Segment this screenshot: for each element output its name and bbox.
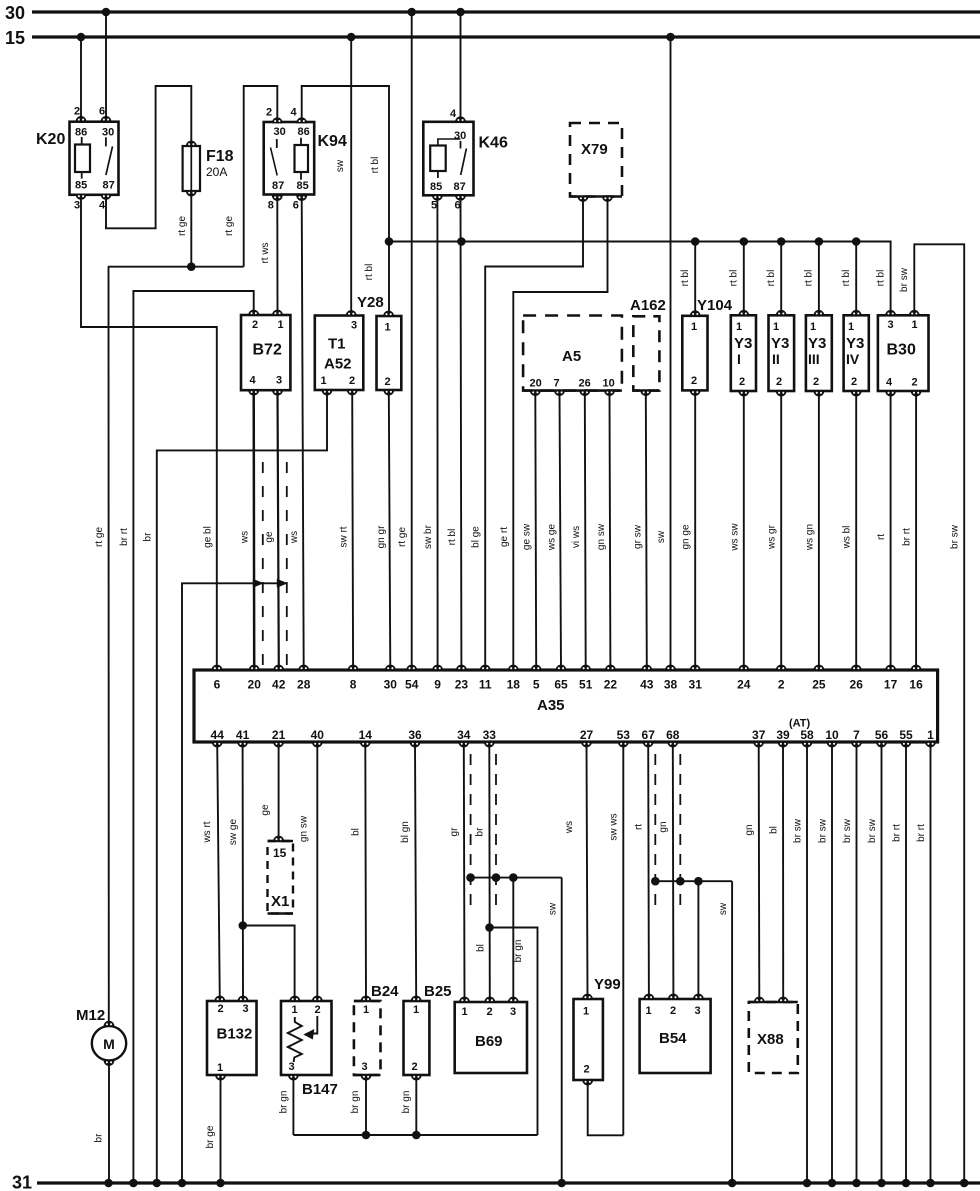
svg-text:M: M [103,1036,115,1052]
svg-text:1: 1 [278,319,284,331]
svg-text:II: II [772,351,780,367]
svg-text:K46: K46 [479,135,508,152]
node pin33 branch [485,923,494,932]
svg-text:br sw: br sw [818,818,829,843]
svg-text:3: 3 [888,319,894,331]
wire A35 pin55 to bus31 br rt [905,742,907,1183]
svg-text:1: 1 [691,321,697,333]
wire rtbl drop Y104 [694,242,696,316]
svg-text:3: 3 [510,1006,516,1018]
svg-text:gn gr: gn gr [376,525,387,548]
svg-text:ws: ws [289,531,300,544]
svg-text:4: 4 [250,375,257,387]
svg-text:30: 30 [384,678,398,692]
svg-text:2: 2 [691,375,697,387]
wire A35 pin21 to X1 ge [278,742,280,841]
svg-text:K94: K94 [318,133,347,150]
shield drain arrow line [182,583,258,1183]
wire bus15 to T1 pin3 sw [350,37,352,316]
wire K20 pin2 from bus 15 [80,37,82,121]
svg-text:68: 68 [666,728,680,742]
svg-text:III: III [808,351,820,367]
svg-text:5: 5 [431,200,437,212]
svg-text:67: 67 [642,728,656,742]
component T1 A52 ignition coil [315,316,364,391]
wire K20 pin4 to F18 top [106,86,191,228]
svg-text:58: 58 [800,728,814,742]
svg-text:3: 3 [362,1061,368,1073]
svg-text:Y3: Y3 [808,335,826,352]
component A5 dashed [523,316,622,391]
B147 arrow [312,1016,318,1034]
component B147 sensor [281,1001,332,1075]
svg-text:31: 31 [12,1173,32,1191]
svg-text:2: 2 [778,678,785,692]
svg-text:87: 87 [454,181,466,193]
svg-text:2: 2 [218,1003,224,1015]
svg-text:gn ge: gn ge [681,524,692,549]
wire A5 pin10 to A35 pin22 [609,391,612,670]
K94 switch [276,139,278,148]
svg-text:A5: A5 [562,348,581,365]
svg-text:rt ge: rt ge [94,527,105,547]
svg-text:18: 18 [507,678,521,692]
svg-text:39: 39 [776,728,790,742]
svg-text:br sw: br sw [793,818,804,843]
wire B69 pin3 riser br gn [512,878,514,1002]
motor M12 fuel pump [92,1026,126,1060]
svg-text:1: 1 [292,1004,298,1016]
svg-text:6: 6 [99,106,105,118]
component B54 [640,999,711,1073]
svg-text:1: 1 [927,728,934,742]
svg-text:15: 15 [5,28,25,48]
svg-text:2: 2 [851,376,857,388]
wire A35 pin33 to B69 pin2 [488,742,491,1002]
svg-text:1: 1 [848,321,854,333]
A35 bottom pin cups and numbers [212,742,222,747]
wire F18 bottom to junction [190,191,192,267]
svg-text:1: 1 [462,1006,468,1018]
svg-text:Y99: Y99 [594,976,621,993]
wire B147 pin3 to collector br gn [292,1075,294,1135]
svg-text:51: 51 [579,678,593,692]
wire K94 pin6 to A35 pin28 [302,196,304,671]
wire Y99 pin2 to A35 pin53 [588,1080,624,1135]
wire Y3 I to A35 pin24 [743,391,745,670]
svg-text:rt ge: rt ge [177,216,188,236]
wire A35 pin34 to B69 pin1 gr [463,742,466,1002]
svg-text:9: 9 [434,678,441,692]
svg-text:br rt: br rt [916,824,927,842]
svg-text:8: 8 [350,678,357,692]
svg-text:21: 21 [272,728,286,742]
injector Y3 I [731,315,756,391]
svg-text:B132: B132 [217,1026,253,1043]
connector X1 terminal 15 [268,841,294,914]
bus15 junction dots [77,33,86,42]
svg-text:gr sw: gr sw [632,524,643,549]
svg-text:sw ws: sw ws [609,813,620,840]
svg-text:2: 2 [74,106,80,118]
svg-text:2: 2 [315,1004,321,1016]
K20 switch [105,137,107,146]
svg-text:br: br [142,532,153,542]
svg-text:Y104: Y104 [697,297,733,314]
svg-text:30: 30 [5,3,25,23]
svg-text:30: 30 [454,130,466,142]
svg-text:1: 1 [363,1004,369,1016]
svg-text:ge: ge [260,804,271,816]
connector X79 [570,123,622,197]
wire rt ge riser to K94 pin2 [244,86,278,267]
svg-text:bl ge: bl ge [471,526,482,548]
svg-text:2: 2 [776,376,782,388]
bus31 junction dots [104,1179,113,1188]
shield dash pin33 [495,754,497,908]
wire A35 pin53 sw ws down [622,742,624,1135]
wire Y28 pin2 to A35 pin30 [389,390,391,670]
component B69 [455,1002,527,1073]
svg-text:24: 24 [737,678,751,692]
wire Y3 III to A35 pin25 [818,391,820,670]
svg-text:rt: rt [876,534,887,540]
svg-text:34: 34 [457,728,471,742]
svg-text:rt bl: rt bl [841,270,852,287]
svg-text:gn sw: gn sw [299,815,310,842]
injector Y3 IV [844,315,869,391]
svg-text:br: br [94,1133,105,1143]
collector wire br gn [293,1134,537,1136]
wire B54 pin3 riser [697,881,699,999]
relay K94 [264,122,315,195]
svg-text:1: 1 [385,322,391,334]
svg-text:1: 1 [321,375,327,387]
wire A35 pin10 to bus31 br sw [831,742,833,1183]
shield link 67-68 to drain [655,880,732,882]
svg-text:B25: B25 [424,983,452,1000]
svg-text:br: br [475,827,486,837]
svg-text:M12: M12 [76,1007,105,1024]
wire K94 pin4 to rt bl riser [302,86,389,316]
svg-text:33: 33 [483,728,497,742]
svg-text:br sw: br sw [899,267,910,292]
svg-text:sw: sw [335,159,346,172]
wire bus30 to A35 pin54 [411,12,413,670]
svg-text:17: 17 [884,678,898,692]
svg-text:44: 44 [211,728,225,742]
component A162 dashed [633,316,659,390]
wire A35 pin36 to B25 pin1 bl gn [415,742,416,1001]
svg-text:6: 6 [293,200,299,212]
svg-text:br sw: br sw [950,524,961,549]
svg-text:23: 23 [455,678,469,692]
svg-text:br sw: br sw [867,818,878,843]
wire B30 pin2 to A35 pin16 [915,391,917,670]
svg-text:sw ge: sw ge [228,819,239,846]
svg-text:2: 2 [412,1061,418,1073]
wire T1 pin1 to bus31 br [157,390,327,1183]
wire K20 pin3 to A35 pin6 ge bl [81,194,217,670]
shield link 34-33 to drain [471,877,562,879]
svg-text:A162: A162 [630,297,666,314]
svg-text:2: 2 [252,319,258,331]
svg-text:54: 54 [405,678,419,692]
svg-text:20A: 20A [206,165,227,179]
wire K46 pin6 to A35 pin23 [460,195,463,670]
svg-text:sw rt: sw rt [339,526,350,547]
component Y99 valve [574,999,603,1080]
fuse F18 [183,146,200,191]
svg-text:T1: T1 [328,336,346,353]
svg-text:br sw: br sw [842,818,853,843]
svg-text:sw: sw [548,902,559,915]
K46 pin cups [456,117,466,122]
svg-text:85: 85 [297,180,309,192]
svg-text:28: 28 [297,678,311,692]
wire A35 pin14 to B24 pin1 bl [364,742,367,1001]
svg-text:rt ge: rt ge [397,527,408,547]
relay K46 [423,122,473,196]
wire B30 pin1 br sw to bus31 [914,244,964,1183]
svg-text:gn: gn [744,824,755,835]
svg-text:ge rt: ge rt [499,527,510,547]
bus 15 [32,35,980,38]
svg-text:8: 8 [268,200,274,212]
svg-text:ws ge: ws ge [547,524,558,552]
svg-text:IV: IV [846,351,860,367]
svg-text:bl: bl [769,826,780,834]
K94 pin cups [272,118,282,123]
svg-text:ws: ws [240,531,251,544]
svg-text:37: 37 [752,728,766,742]
wire A35 pin56 to bus31 br sw [881,742,883,1183]
wire B30 pin4 to A35 pin17 [890,391,892,670]
wire junction horizontal rt ge [108,266,244,268]
component B72 [241,315,290,390]
wire A5 pin26 to A35 pin51 [584,391,587,670]
svg-text:rt bl: rt bl [447,529,458,546]
svg-text:3: 3 [276,375,282,387]
svg-text:87: 87 [103,180,115,192]
relay K20 [70,122,119,195]
svg-text:bl gn: bl gn [400,821,411,843]
component Y28 valve [377,316,402,390]
svg-text:14: 14 [359,728,373,742]
wire A35 pin67 to B54 pin1 rt [647,742,650,999]
svg-text:ge: ge [264,531,275,543]
wire A5 pin20 to A35 pin5 [534,391,537,670]
svg-text:ge bl: ge bl [202,526,213,548]
wire K20 pin6 from bus 30 [105,12,107,121]
svg-text:Y3: Y3 [734,335,752,352]
component B132 [207,1001,257,1075]
wire pin33 branch to collector [490,928,538,1136]
svg-text:3: 3 [351,320,357,332]
svg-text:26: 26 [579,378,591,390]
node rtbl-K46 [457,237,466,246]
svg-text:1: 1 [912,319,918,331]
X79 pin cups [578,197,588,202]
wire A35 pin68 to B54 pin2 gn [672,742,675,999]
wire B72 pin3 to A35 pin42 ge [278,390,279,670]
svg-text:B69: B69 [475,1033,503,1050]
svg-text:10: 10 [603,378,615,390]
A35 top pin cups and numbers [212,665,222,670]
svg-text:gn sw: gn sw [596,523,607,550]
wire rtbl drop Y3 IV [855,242,857,316]
wire bus15 to A35 pin38 sw [670,37,672,670]
svg-text:22: 22 [604,678,618,692]
shield dash pin68 [679,754,681,905]
wire B72 pin4 to A35 pin20 ws [252,390,255,670]
wire A35 pin37 to X88 gn [758,742,761,1002]
svg-text:rt bl: rt bl [680,270,691,287]
svg-text:43: 43 [640,678,654,692]
svg-text:B147: B147 [302,1081,338,1098]
svg-text:4: 4 [450,108,457,120]
B147 resistor zigzag [288,1017,302,1062]
svg-text:85: 85 [430,181,442,193]
svg-text:br rt: br rt [902,528,913,546]
svg-text:rt ws: rt ws [260,242,271,263]
wire Y3 IV to A35 pin26 [855,391,857,670]
svg-text:11: 11 [479,678,492,692]
svg-text:3: 3 [289,1061,295,1073]
svg-text:42: 42 [272,678,286,692]
wire shield drain sw to bus31 [561,878,563,1183]
wire A35 pin41 to B132 pin3 sw ge [242,742,244,1001]
svg-text:X88: X88 [757,1031,784,1048]
svg-text:15: 15 [273,846,287,860]
svg-text:85: 85 [75,180,87,192]
svg-text:3: 3 [74,200,80,212]
shield dash pin20 [262,462,264,665]
svg-text:87: 87 [272,180,284,192]
svg-text:B54: B54 [659,1030,687,1047]
shield dash pin34 [470,754,472,908]
node collector B25 [412,1131,421,1140]
svg-text:rt ge: rt ge [224,216,235,236]
svg-text:rt bl: rt bl [876,270,887,287]
svg-text:26: 26 [850,678,864,692]
component B30 [878,315,929,391]
svg-text:2: 2 [487,1006,493,1018]
node F18 junction [187,262,196,271]
svg-text:2: 2 [385,376,391,388]
wire T1 pin2 to A35 pin8 sw rt [351,390,354,670]
wire rtbl drop Y3 I [743,242,745,316]
wire Y3 II to A35 pin2 [780,391,782,670]
wire K46 pin4 from bus 30 [460,12,462,122]
wire Y104 pin2 to A35 pin31 [694,390,696,670]
svg-text:25: 25 [812,678,826,692]
K20 coil [75,145,90,173]
rt bl distribution bus [389,242,891,316]
svg-text:5: 5 [533,678,540,692]
svg-text:Y3: Y3 [846,335,864,352]
connector X88 dashed [749,1002,798,1073]
svg-text:7: 7 [554,378,560,390]
wire B24 pin3 br gn [365,1075,367,1135]
wire rtbl drop Y3 III [818,242,820,316]
svg-text:F18: F18 [206,148,234,165]
svg-text:2: 2 [584,1064,590,1076]
svg-text:38: 38 [664,678,678,692]
svg-text:A52: A52 [324,356,352,373]
node branch on pin41 wire [239,921,248,930]
svg-text:2: 2 [912,377,918,389]
svg-text:86: 86 [75,127,87,139]
K46 coil-switch link [438,139,461,146]
wire A35 pin1 to bus31 br rt [930,742,932,1183]
component B24 dashed [354,1001,381,1075]
svg-text:56: 56 [875,728,889,742]
svg-text:br gn: br gn [350,1091,361,1114]
svg-text:rt bl: rt bl [804,270,815,287]
wire B132 pin1 to bus31 br ge [220,1075,222,1183]
svg-text:K20: K20 [36,131,65,148]
svg-text:65: 65 [554,678,568,692]
svg-text:ge sw: ge sw [522,523,533,550]
svg-text:B72: B72 [253,342,282,359]
svg-text:27: 27 [580,728,594,742]
svg-text:4: 4 [99,200,106,212]
K46 switch [460,141,462,149]
svg-text:30: 30 [274,126,286,138]
svg-text:br gn: br gn [513,940,524,963]
svg-text:1: 1 [583,1006,589,1018]
ECU A35 [194,670,938,742]
wire branch to B147 pin1 [243,926,295,1002]
svg-text:16: 16 [909,678,923,692]
wire X79 left to A35 pin11 [485,197,583,671]
svg-text:bl: bl [476,944,487,952]
svg-text:20: 20 [248,678,262,692]
svg-text:Y3: Y3 [771,335,789,352]
node rtbl-Y28 [385,237,394,246]
svg-text:1: 1 [736,321,742,333]
wire A35 pin7 to bus31 br sw [856,742,858,1183]
shield dash pin42 [286,462,288,665]
svg-text:55: 55 [899,728,913,742]
svg-text:br rt: br rt [119,528,130,546]
svg-text:ws gr: ws gr [767,524,778,550]
svg-text:ws sw: ws sw [729,523,740,552]
wire M12 feed rt ge [108,267,110,1026]
svg-text:2: 2 [813,376,819,388]
wire A162 to A35 pin43 [646,391,647,670]
svg-text:1: 1 [810,321,816,333]
wire X79 right to A35 pin18 [513,197,607,671]
component B25 [404,1001,430,1075]
svg-text:B24: B24 [371,983,399,1000]
svg-text:53: 53 [617,728,631,742]
svg-text:40: 40 [311,728,325,742]
svg-text:ws bl: ws bl [842,526,853,550]
shield arrowhead 2 [277,579,288,588]
svg-text:rt bl: rt bl [766,270,777,287]
svg-text:4: 4 [291,107,298,119]
svg-text:2: 2 [266,107,272,119]
svg-text:2: 2 [670,1005,676,1017]
svg-text:ws: ws [564,821,575,834]
wire A35 pin40 to B147 pin2 gn sw [316,742,318,1001]
K20 pin cups [76,117,86,122]
svg-text:ws rt: ws rt [202,821,213,843]
injector Y3 II [769,315,795,391]
svg-text:gn: gn [658,821,669,832]
